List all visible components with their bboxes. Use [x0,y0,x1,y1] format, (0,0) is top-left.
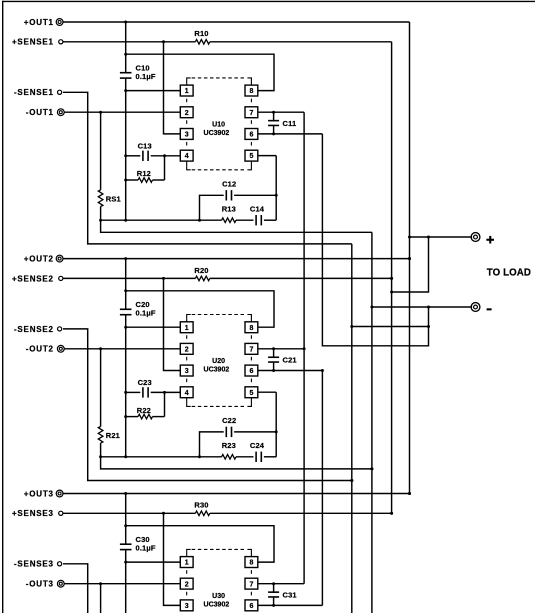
wire +SENSE1 horizontal [63,41,195,43]
capacitor C23 [142,387,144,397]
node pin6 bus junction [321,369,324,372]
terminal -SENSE1 [58,90,62,94]
node C23 junctions [124,391,127,394]
terminal -OUT3 [57,580,64,587]
svg-text:-SENSE1: -SENSE1 [14,88,54,97]
wire -OUT1 horizontal [64,111,180,113]
svg-text:0.1µF: 0.1µF [136,309,156,318]
wire -OUT3 horizontal [64,583,180,585]
wire pin 7 out [258,348,304,350]
capacitor C21 vertical [273,349,275,358]
node +SENSE2 junction [162,277,165,280]
svg-text:C31: C31 [283,590,297,599]
node pin7 share bus junction [303,347,306,350]
svg-text:-OUT2: -OUT2 [26,345,54,354]
svg-text:3: 3 [185,132,189,139]
pin 8 [245,322,258,333]
svg-text:R12: R12 [137,169,151,178]
svg-text:7: 7 [249,346,253,353]
svg-text:U10: U10 [212,122,225,129]
wire pin 6 out [258,133,323,135]
resistor R22 [138,414,152,419]
wire RS resistor vertical [100,112,102,190]
pin 6 [245,600,258,611]
svg-text:7: 7 [249,581,253,588]
resistor share 1 [98,190,103,207]
wire pin 5 out [258,155,276,157]
border frame top [2,0,535,2]
wire pin 5 out [258,391,276,393]
terminal -SENSE2 [58,327,62,331]
node C bypass bottom [272,132,275,135]
svg-text:UC3902: UC3902 [204,130,230,137]
terminal -SENSE3 [58,562,62,566]
wire R22 row [126,416,138,418]
svg-text:3: 3 [185,603,189,610]
node C22 right junction [275,430,278,433]
wire pin 6 out [258,370,323,372]
capacitor C11 vertical [273,112,275,121]
svg-text:C21: C21 [283,355,297,364]
node +OUT2 to +OUT bus [408,257,411,260]
node C bypass bottom [272,369,275,372]
node minus bus junctions [370,306,373,309]
node branch junction [124,524,127,527]
node C13 junctions [124,154,127,157]
node -OUT2 junction RS2 [99,347,102,350]
pin 6 [245,129,258,140]
svg-text:C13: C13 [138,142,152,151]
wire R12 row [126,179,138,181]
capacitor C13 [142,151,144,161]
node C bypass top [272,582,275,585]
terminal load minus [471,303,480,312]
svg-text:R22: R22 [137,406,151,415]
node +SENSE2 to +SENSE bus [390,277,393,280]
border frame left [2,1,4,613]
svg-text:R10: R10 [194,29,208,38]
resistor R13 [222,218,236,223]
node -OUT1 junction RS1 [99,111,102,114]
node +OUT2 junction [124,257,127,260]
svg-text:6: 6 [249,603,253,610]
node -SENSE2 to bus [350,479,353,482]
svg-text:C22: C22 [222,416,236,425]
node C bypass top [272,347,275,350]
svg-text:R23: R23 [222,441,236,450]
op-amp U10 dashed outline [187,78,191,85]
node +SENSE3 junction [162,512,165,515]
capacitor C24 [255,452,257,462]
wire pin 5 vertical [275,156,277,221]
resistor R30 [195,511,209,516]
wire +OUT bus vertical [409,22,411,494]
pin 2 [180,107,193,118]
resistor share 2 [98,427,103,444]
wire +OUT2 branch to pin 8 [126,291,274,327]
wire -OUT2 horizontal [64,348,180,350]
svg-text:3: 3 [185,368,189,375]
pin 8 [245,557,258,568]
wire pin6 bus lower [321,371,323,606]
capacitor C14 [255,215,257,225]
terminal load plus [471,233,480,242]
node +OUT3 junction [124,492,127,495]
terminal +SENSE1 [59,40,63,44]
svg-text:R21: R21 [106,431,120,440]
svg-text:UC3902: UC3902 [204,601,230,608]
label minus [487,308,492,310]
pin 2 [180,578,193,589]
terminal +SENSE2 [59,276,63,280]
pin 4 [180,150,193,161]
pin 1 [180,557,193,568]
wire +OUT2 horizontal [63,258,410,260]
wire C10 bus vertical [125,22,127,73]
node +SENSE1 junction [162,40,165,43]
pin 8 [245,85,258,96]
wire -SENSE2 [63,329,352,481]
pin 6 [245,365,258,376]
wire +SENSE join to load plus [392,237,429,292]
wire C30 bus vertical [125,494,127,545]
node C bypass top [272,111,275,114]
wire +SENSE2 horizontal [63,277,195,279]
svg-text:0.1µF: 0.1µF [136,544,156,553]
svg-text:+OUT1: +OUT1 [24,18,54,27]
svg-text:RS1: RS1 [106,195,121,204]
wire +OUT3 horizontal [63,493,410,495]
op-amp U20 dashed outline [187,315,191,322]
wire share-resistor minus bus vertical [371,232,373,613]
node join dots [427,236,430,239]
node +OUT3 to +OUT bus [408,492,411,495]
wire C22 row [200,432,277,457]
svg-text:+SENSE3: +SENSE3 [12,509,54,518]
node -SENSE bus to -SENSE2 [350,479,353,482]
pin 3 [180,365,193,376]
capacitor C30 [120,543,132,545]
svg-text:8: 8 [249,560,253,567]
node pin1 feed junction [124,561,127,564]
svg-text:4: 4 [185,153,189,160]
wire load plus line [410,236,473,238]
node pin1 feed junction [124,89,127,92]
wire pin6 bus upper [322,134,428,346]
wire C12 row [200,195,277,220]
node branch junction [124,289,127,292]
svg-text:R20: R20 [194,266,208,275]
pin 1 [180,85,193,96]
wire share pin7 bus vertical [303,112,305,584]
svg-text:+SENSE1: +SENSE1 [12,38,54,47]
svg-text:U30: U30 [212,593,225,600]
pin 1 [180,322,193,333]
wire pin 1 feed [126,90,181,92]
svg-text:U20: U20 [212,358,225,365]
capacitor C10 [120,72,132,74]
svg-text:1: 1 [185,560,189,567]
pin 5 [245,387,258,398]
wire pin 1 feed [126,326,181,328]
wire bottom node row [101,456,222,458]
op-amp U30 dashed outline [187,549,191,556]
pin 2 [180,343,193,354]
svg-text:+OUT3: +OUT3 [24,489,54,498]
pin 4 [180,387,193,398]
svg-text:5: 5 [249,153,253,160]
node R12 junction [124,179,127,182]
wire pin 7 out [258,111,304,113]
node R22 junction [124,415,127,418]
wire +SENSE bus vertical [391,42,393,514]
wire pin 1 feed [126,561,181,563]
wire -SENSE3 [63,564,352,613]
node share line to bus [370,467,373,470]
resistor R23 [222,455,236,460]
wire -SENSE join line [352,326,429,328]
svg-text:C11: C11 [283,119,297,128]
node -OUT3 junction RS3 [99,582,102,585]
wire load minus line [372,306,472,308]
svg-text:TO LOAD: TO LOAD [487,267,531,278]
node +OUT bus junctions [408,236,411,239]
node bottom row junctions [99,219,102,222]
wire C13 row to pin 4 [126,155,141,157]
svg-text:7: 7 [249,110,253,117]
svg-text:-OUT1: -OUT1 [26,108,54,117]
svg-text:1: 1 [185,325,189,332]
capacitor C20 [120,308,132,310]
node +OUT1 junction [124,21,127,24]
wire C23 row to pin 4 [126,391,141,393]
wire RS resistor vertical [100,584,102,613]
node minus line junctions [427,306,430,309]
svg-text:-OUT3: -OUT3 [26,580,54,589]
svg-text:-SENSE3: -SENSE3 [14,560,54,569]
svg-text:+OUT2: +OUT2 [24,255,54,264]
svg-text:8: 8 [249,88,253,95]
capacitor C31 vertical [273,584,275,593]
svg-text:C24: C24 [250,441,265,450]
capacitor C22 [225,427,227,437]
svg-text:2: 2 [185,581,189,588]
node +SENSE bus junctions [390,277,393,280]
wire -SENSE bus vertical [351,244,353,613]
svg-text:8: 8 [249,325,253,332]
resistor R10 [195,40,209,45]
svg-text:+SENSE2: +SENSE2 [12,274,54,283]
node +SENSE3 to +SENSE bus [390,512,393,515]
terminal -OUT2 [57,345,64,352]
terminal +OUT2 [56,255,63,262]
terminal +SENSE3 [59,511,63,515]
wire bottom node row [101,219,222,221]
terminal +OUT3 [56,490,63,497]
wire share node to minus bus [101,220,372,232]
resistor R12 [138,178,152,183]
svg-text:6: 6 [249,368,253,375]
wire share node to minus bus [101,457,372,469]
svg-text:2: 2 [185,346,189,353]
node C bypass bottom [272,604,275,607]
wire pin 7 out [258,583,304,585]
wire RS resistor vertical [100,349,102,427]
svg-text:2: 2 [185,110,189,117]
svg-text:5: 5 [249,390,253,397]
pin 3 [180,600,193,611]
wire pin 6 out [258,604,323,606]
node bottom row junctions [99,455,102,458]
node C12 right junction [275,194,278,197]
pin 5 [245,150,258,161]
wire -SENSE1 [63,92,352,244]
terminal -OUT1 [57,109,64,116]
resistor R20 [195,276,209,281]
svg-text:-SENSE2: -SENSE2 [14,325,54,334]
svg-text:R13: R13 [222,204,236,213]
wire C20 bus vertical [125,259,127,310]
svg-text:1: 1 [185,88,189,95]
svg-text:C12: C12 [222,180,236,189]
svg-text:UC3902: UC3902 [204,366,230,373]
wire +OUT1 horizontal [63,21,410,23]
pin 7 [245,343,258,354]
wire +SENSE3 to pin 3 [164,513,181,605]
label plus [486,239,494,241]
svg-text:C23: C23 [138,378,152,387]
wire +OUT1 branch to pin 8 [126,54,274,90]
terminal +OUT1 [56,19,63,26]
pin 7 [245,107,258,118]
node branch junction [124,53,127,56]
wire +SENSE3 horizontal [63,512,195,514]
wire +SENSE2 to pin 3 [164,278,181,370]
pin 7 [245,578,258,589]
svg-text:6: 6 [249,132,253,139]
pin 3 [180,129,193,140]
node pin1 feed junction [124,326,127,329]
svg-text:0.1µF: 0.1µF [136,72,156,81]
capacitor C12 [225,190,227,200]
wire +SENSE1 to pin 3 [164,42,181,134]
wire +OUT3 branch to pin 8 [126,526,274,562]
wire pin 5 vertical [275,392,277,457]
svg-text:C14: C14 [250,204,265,213]
svg-text:R30: R30 [194,501,208,510]
svg-text:4: 4 [185,390,189,397]
node -SENSE join [350,325,353,328]
